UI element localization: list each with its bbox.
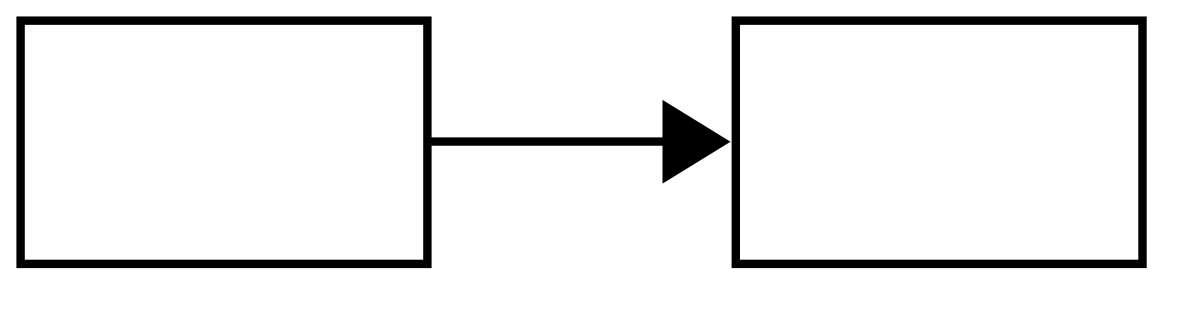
arrowhead xyxy=(663,100,731,184)
left box xyxy=(21,21,428,264)
wire (arrow shaft) xyxy=(427,137,667,145)
right box xyxy=(736,21,1143,264)
